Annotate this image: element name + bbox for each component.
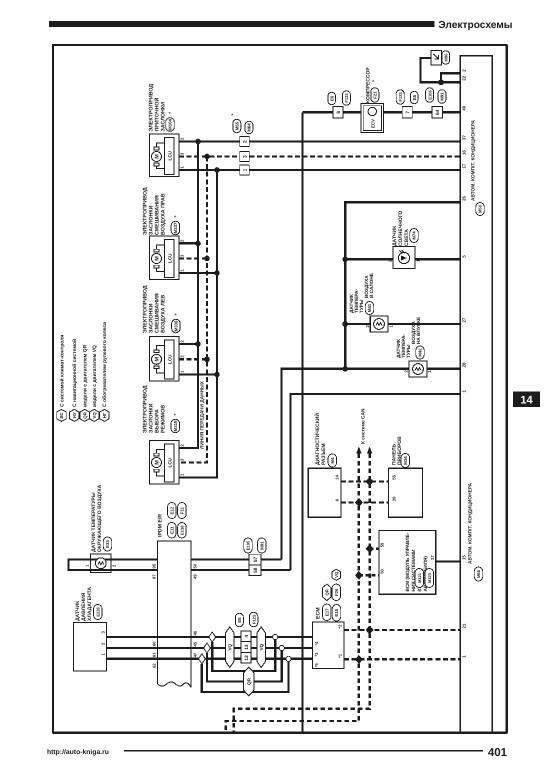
svg-text:6: 6 [335, 498, 340, 501]
wire rowA [107, 636, 209, 638]
svg-text:РЕЖИМОВ: РЕЖИМОВ [161, 405, 167, 433]
band connector square 57 [249, 554, 261, 565]
svg-text:37: 37 [430, 555, 435, 560]
connector M90 [431, 51, 442, 66]
svg-text:62: 62 [151, 663, 156, 668]
svg-text:ECV: ECV [371, 119, 376, 128]
junction dot A3 bus1 [195, 341, 201, 347]
svg-text:M66: M66 [476, 569, 481, 578]
svg-text:*2: *2 [338, 624, 343, 629]
air mix door motor LH M338 [150, 337, 180, 382]
svg-text:LCU: LCU [167, 150, 172, 160]
svg-text:M74: M74 [412, 231, 417, 240]
wire row3 to amp pin17 [249, 169, 460, 171]
junction M4-14 CAN-B [366, 477, 374, 486]
junction dot A3 bus3 [214, 372, 220, 378]
svg-text:E6: E6 [412, 94, 417, 100]
svg-text:2: 2 [180, 239, 185, 242]
connector oval E105 band [244, 538, 253, 553]
svg-text:3: 3 [180, 355, 185, 358]
svg-text:49: 49 [462, 105, 467, 110]
QR loop rowC [202, 661, 289, 692]
mode door motor M319 [150, 441, 180, 485]
QR loop rowA [212, 640, 275, 671]
connector square pin3 [240, 152, 250, 162]
wire rowA to ECM [278, 636, 313, 638]
wire compressor drop [301, 112, 303, 732]
junction dot A3 bus2 [204, 357, 210, 363]
svg-text:47: 47 [193, 652, 198, 657]
svg-text:E6: E6 [329, 95, 334, 101]
svg-text:2: 2 [180, 137, 185, 140]
footer rule [124, 750, 483, 752]
svg-text:M121: M121 [417, 572, 422, 583]
CAN arrow A [356, 447, 361, 454]
svg-text:28: 28 [462, 362, 467, 367]
wire BCM pin50 dashed [359, 574, 379, 576]
svg-text:M64: M64 [247, 123, 252, 132]
svg-text:17: 17 [462, 163, 467, 168]
bus wire 1 vertical [179, 142, 198, 449]
option connector VQ left [226, 627, 235, 668]
A/C auto amp box [460, 56, 492, 732]
svg-text:46: 46 [193, 630, 198, 635]
svg-text:60: 60 [151, 641, 156, 646]
svg-text:M: M [155, 154, 161, 159]
air mix door motor RH M337 [150, 236, 180, 280]
junction dot A1 bus2 [204, 154, 210, 160]
junction ECM pin1 CAN-A [355, 655, 363, 664]
svg-text:E18: E18 [334, 608, 339, 616]
svg-text:VQ: VQ [92, 412, 97, 419]
svg-text:F26: F26 [334, 588, 339, 596]
wire M74 to amp pin5 [415, 258, 460, 260]
svg-text:3: 3 [101, 631, 106, 634]
junction dot A2 bus1 [195, 241, 201, 247]
svg-text:E12: E12 [170, 506, 175, 514]
svg-text:E6: E6 [237, 617, 242, 623]
air intake door motor M104 [150, 134, 180, 177]
svg-text:61: 61 [151, 652, 156, 657]
svg-text:НГ: НГ [102, 412, 107, 418]
wire row1 to amp pin37 [249, 140, 460, 142]
IPDM oval E11 [168, 522, 177, 538]
connector oval F123 b [396, 90, 404, 105]
svg-text:1: 1 [180, 166, 185, 169]
svg-text:M34: M34 [403, 456, 408, 465]
splitter diamond rowA [209, 632, 216, 642]
svg-text:5: 5 [462, 255, 467, 258]
wire M42 to amp pin28 [427, 368, 460, 370]
svg-text:E105: E105 [246, 540, 251, 550]
wire rowC to ECM [291, 658, 313, 660]
svg-text:АВТОМ. КОМП/Т. КОНДИЦИОНЕРА: АВТОМ. КОМП/Т. КОНДИЦИОНЕРА [468, 482, 474, 564]
wire M42 left long [282, 369, 410, 560]
svg-text:3: 3 [180, 152, 185, 155]
wire A3 row2 dashed [179, 358, 207, 360]
junction BCM-50 CAN-A [355, 571, 363, 580]
wire A1 row3 [179, 169, 240, 171]
svg-text:E33: E33 [105, 540, 110, 548]
svg-text:14: 14 [335, 474, 340, 479]
splitter diamond rowC [199, 654, 206, 664]
svg-text:IPDM E/R: IPDM E/R [158, 514, 164, 537]
connector oval E6 vq [235, 613, 243, 627]
svg-text:3: 3 [180, 458, 185, 461]
svg-text:F123: F123 [251, 614, 256, 624]
svg-text:1: 1 [85, 564, 90, 567]
junction BCM-59 CAN-B [366, 544, 374, 553]
svg-text:M4: M4 [330, 457, 335, 464]
wire compressor right [384, 111, 461, 113]
svg-text:*1: *1 [338, 653, 343, 658]
page frame [53, 45, 507, 733]
junction circle rowC [286, 656, 291, 661]
svg-text:LCU: LCU [167, 354, 172, 364]
IPDM E/R box [158, 541, 192, 688]
svg-text:К системе CAN: К системе CAN [361, 408, 367, 444]
connector square 64 [432, 107, 443, 119]
svg-text:E17: E17 [325, 608, 330, 616]
wire M4 pin6 dashed [341, 501, 389, 503]
wire A2 row3 [179, 272, 217, 274]
svg-text:BCM (МОДУЛЬ УПРАВЛЕ-: BCM (МОДУЛЬ УПРАВЛЕ- [405, 532, 410, 591]
intake sensor M42 [409, 361, 427, 377]
svg-text:55: 55 [391, 474, 396, 479]
QR loop rowB [207, 651, 282, 682]
junction ECM pin2 CAN-B [366, 626, 374, 635]
wire band to M42 riser [191, 558, 282, 560]
svg-text:M90: M90 [444, 53, 449, 62]
legend note ВС [57, 409, 67, 421]
svg-text:21: 21 [462, 623, 467, 628]
svg-text:8: 8 [336, 111, 342, 114]
svg-text:VQ: VQ [259, 643, 264, 650]
connector square 7 [402, 107, 412, 119]
svg-text:ОКРУЖАЮЩЕГО ВОЗДУХА: ОКРУЖАЮЩЕГО ВОЗДУХА [97, 484, 103, 552]
connector oval M65 [233, 119, 241, 133]
svg-text:49: 49 [193, 574, 198, 579]
svg-text:С навигационной системой: С навигационной системой [72, 339, 78, 407]
junction dot A1 bus1 [195, 139, 201, 145]
svg-text:M338: M338 [174, 320, 179, 331]
svg-text:С системой климат-контроля: С системой климат-контроля [59, 335, 65, 407]
svg-text:16: 16 [462, 150, 467, 155]
svg-text:M337: M337 [173, 222, 178, 233]
ECM box [313, 622, 345, 669]
svg-text:2: 2 [101, 642, 106, 645]
svg-text:M42: M42 [418, 348, 423, 357]
wire ECM pin2 dashed [344, 629, 460, 631]
svg-text:2: 2 [112, 564, 117, 567]
svg-text:НА ВПУСКЕ: НА ВПУСКЕ [416, 317, 421, 344]
svg-text:M65: M65 [235, 121, 240, 130]
junction dot A1 bus3 [214, 167, 220, 173]
wire M41 to amp pin27 [388, 323, 460, 325]
svg-text:E136: E136 [180, 525, 185, 535]
svg-text:*: * [169, 111, 172, 118]
svg-text:АВТОМ. КОМП/Т. КОНДИЦИОНЕРА: АВТОМ. КОМП/Т. КОНДИЦИОНЕРА [471, 119, 477, 201]
svg-text:1: 1 [180, 269, 185, 272]
CAN arrow B [367, 447, 372, 454]
svg-text:LCU: LCU [167, 253, 172, 263]
pressure sensor E226 [74, 623, 107, 672]
svg-text:64: 64 [435, 109, 441, 115]
svg-text:M50: M50 [478, 204, 483, 213]
svg-text:QR: QR [325, 588, 330, 595]
junction M4-6 CAN-A [355, 498, 363, 507]
IPDM oval F11 [178, 503, 187, 519]
wire ECM pin1 dashed [344, 658, 460, 660]
svg-text:ДИАГНОСТИЧЕСКИЙ: ДИАГНОСТИЧЕСКИЙ [314, 413, 321, 465]
connector square pin1 [240, 165, 250, 175]
svg-text:14: 14 [520, 395, 533, 407]
wire A1 row1 [179, 140, 240, 142]
svg-text:M: M [155, 460, 161, 465]
legend note НГ [100, 409, 110, 421]
sunload sensor M74 [393, 247, 415, 269]
svg-text:22: 22 [462, 75, 467, 80]
connector oval F123 a [342, 91, 350, 106]
svg-text:QR: QR [82, 411, 87, 418]
option squares 4/13/12 [241, 631, 251, 642]
compressor box F21 [361, 104, 384, 133]
wire amp pin2 [441, 73, 460, 82]
svg-text:3: 3 [180, 254, 185, 257]
shield band [69, 560, 158, 571]
CAN line B [234, 454, 370, 732]
wire rowB [107, 647, 204, 649]
svg-text:M: M [155, 256, 161, 261]
CAN line A [226, 454, 359, 732]
junction circle rowA [273, 634, 278, 639]
wire amp pin26 common [345, 202, 460, 368]
svg-text:*: * [174, 215, 177, 222]
connector oval F123 vq [249, 612, 258, 627]
svg-text:модели с двигателем QR: модели с двигателем QR [83, 344, 89, 407]
svg-text:СВЕТА: СВЕТА [404, 229, 410, 246]
connector oval E105 b [426, 88, 434, 103]
wire A1 row2 dashed [179, 155, 240, 157]
svg-text:15: 15 [462, 555, 467, 560]
svg-text:В САЛОНЕ: В САЛОНЕ [369, 273, 374, 298]
svg-text:50: 50 [193, 563, 198, 568]
wire A3 row1 [179, 343, 198, 345]
svg-text:*: * [174, 313, 177, 320]
connector square 8 [333, 107, 343, 119]
svg-text:ECM: ECM [316, 607, 322, 619]
svg-text:ВОЗДУХА ЛЕВ: ВОЗДУХА ЛЕВ [161, 295, 167, 333]
band connector square 58 [249, 565, 261, 576]
junction dot pin22 [438, 80, 444, 86]
svg-text:M41: M41 [367, 303, 372, 312]
connector oval E6 a [328, 92, 336, 105]
wire rowA straight [216, 636, 274, 638]
legend note QR [80, 409, 90, 421]
svg-text:2: 2 [180, 444, 185, 447]
junction dot A2 bus3 [214, 270, 220, 276]
svg-text:1: 1 [101, 653, 106, 656]
IPDM oval E12 [168, 503, 177, 519]
connector oval M91 b [438, 90, 446, 104]
wire row2 to amp pin16 dashed [249, 155, 460, 157]
wire BCM to amp pin15 [436, 560, 461, 562]
wire BCM pin59 dashed [370, 548, 379, 550]
wire rowB straight [210, 647, 280, 649]
svg-text:2: 2 [462, 69, 467, 72]
diagnostic connector M4 [308, 468, 341, 517]
svg-text:ВС: ВС [59, 411, 64, 418]
option connector QR [244, 667, 255, 696]
wire M41 left [345, 323, 370, 325]
ambient sensor E33 [91, 554, 112, 573]
svg-text:1: 1 [462, 390, 467, 393]
svg-text:M104: M104 [168, 119, 173, 130]
svg-text:С обогревателем рулевого колес: С обогревателем рулевого колеса [102, 322, 108, 407]
svg-text:QR: QR [247, 677, 252, 685]
svg-text:95: 95 [151, 563, 156, 568]
svg-text:57: 57 [253, 557, 259, 563]
wire A2 row1 [179, 242, 198, 244]
IPDM oval E136 [178, 522, 187, 538]
svg-text:26: 26 [462, 195, 467, 200]
junction dot A2 bus2 [204, 256, 210, 262]
svg-text:M91: M91 [260, 541, 265, 550]
svg-text:7: 7 [405, 111, 411, 114]
option connector VQ right [257, 627, 266, 668]
wire band to amp riser [191, 569, 291, 571]
svg-text:1: 1 [242, 168, 248, 171]
wire A3 row3 [179, 373, 217, 375]
svg-text:E105: E105 [427, 89, 432, 99]
svg-text:M319: M319 [173, 420, 178, 431]
wire rowC straight [205, 658, 287, 660]
junction circle rowB [279, 645, 284, 650]
svg-text:1: 1 [180, 370, 185, 373]
svg-text:*3: *3 [314, 652, 319, 657]
svg-text:27: 27 [462, 317, 467, 322]
svg-text:*4: *4 [314, 641, 319, 646]
svg-text:ЛИНИЯ ПЕРЕДАЧИ ДАННЫХ: ЛИНИЯ ПЕРЕДАЧИ ДАННЫХ [200, 380, 206, 449]
svg-text:50: 50 [380, 568, 385, 573]
wire M74 left [345, 258, 393, 260]
svg-text:VQ: VQ [334, 571, 339, 578]
junction dot common M74 [342, 257, 348, 263]
svg-text:2: 2 [242, 140, 248, 143]
header bar [49, 21, 435, 27]
wire compressor left [303, 111, 362, 113]
svg-text:Электросхемы: Электросхемы [438, 20, 512, 31]
svg-text:4: 4 [244, 635, 250, 638]
svg-text:45: 45 [193, 641, 198, 646]
bus wire 3 vertical [179, 170, 217, 478]
svg-text:ПРИТОЧНОЙ: ПРИТОЧНОЙ [154, 97, 161, 131]
wire amp pin22 [421, 58, 461, 82]
in-vehicle sensor M41 [370, 316, 388, 332]
svg-text:13: 13 [244, 644, 250, 650]
svg-text:F123: F123 [398, 92, 403, 102]
wire A2 row2 dashed [179, 257, 207, 259]
svg-text:ТУРЫ: ТУРЫ [406, 344, 411, 358]
compressor ECV coil [368, 107, 376, 115]
svg-text:M: M [155, 357, 161, 362]
connector oval E6 b [410, 91, 418, 104]
wire amp pin1 [291, 394, 461, 570]
svg-text:F21: F21 [373, 91, 378, 99]
svg-text:M91: M91 [440, 92, 445, 101]
splitter diamond rowB [204, 643, 211, 653]
svg-text:F11: F11 [180, 506, 185, 514]
svg-text:1: 1 [180, 473, 185, 476]
svg-text:LCU: LCU [167, 457, 172, 467]
svg-text:87: 87 [151, 574, 156, 579]
svg-text:http://auto-kniga.ru: http://auto-kniga.ru [47, 749, 109, 756]
svg-text:VQ: VQ [228, 643, 233, 650]
svg-text:*: * [174, 413, 177, 420]
svg-text:58: 58 [253, 567, 259, 573]
instrument panel M34 [389, 468, 423, 517]
svg-text:НУ: НУ [72, 412, 77, 418]
svg-text:ВОЗДУХА ПРАВ: ВОЗДУХА ПРАВ [161, 193, 167, 235]
svg-text:РАЗЪЕМ: РАЗЪЕМ [321, 444, 327, 466]
svg-text:37: 37 [462, 135, 467, 140]
BCM box [379, 530, 436, 594]
svg-text:E226: E226 [96, 607, 101, 617]
wire rowC [107, 658, 199, 660]
svg-text:модели с двигателем VQ: модели с двигателем VQ [92, 345, 98, 407]
svg-text:M123: M123 [427, 572, 432, 583]
svg-text:ТУРЫ: ТУРЫ [359, 299, 364, 313]
svg-text:*: * [231, 113, 234, 120]
svg-text:3: 3 [242, 155, 248, 158]
legend note НУ [70, 409, 80, 421]
wire rowB to ECM [284, 647, 312, 649]
junction dot common M42 [342, 366, 348, 372]
svg-text:F123: F123 [344, 93, 349, 103]
chapter tab 14 [513, 392, 540, 408]
svg-text:1: 1 [462, 655, 467, 658]
svg-text:2: 2 [180, 340, 185, 343]
svg-text:39: 39 [391, 496, 396, 501]
svg-text:*: * [372, 79, 375, 86]
junction dot common M41 [342, 321, 348, 327]
svg-text:401: 401 [488, 747, 508, 759]
legend note VQ [89, 409, 99, 421]
svg-text:E11: E11 [170, 526, 175, 534]
svg-text:12: 12 [244, 655, 250, 661]
connector square pin2 [240, 137, 250, 147]
svg-text:*5: *5 [314, 663, 319, 668]
svg-text:59: 59 [380, 542, 385, 547]
wire M4 pin14 dashed [341, 480, 389, 482]
connector oval M91 band [258, 538, 267, 553]
connector oval M64 [245, 121, 253, 134]
svg-text:ХЛАДАГЕНТА: ХЛАДАГЕНТА [87, 587, 93, 621]
bus wire 2 vertical dashed (data line) [179, 157, 207, 463]
